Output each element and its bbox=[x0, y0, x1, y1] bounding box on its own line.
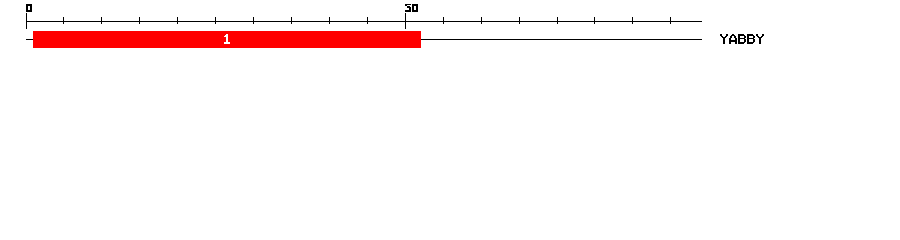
ruler minor tick 25 bbox=[215, 17, 216, 24]
sequence line (left of domain bar) bbox=[26, 39, 33, 40]
ruler minor tick 35 bbox=[291, 17, 292, 24]
sequence line (right of domain bar) bbox=[421, 39, 702, 40]
letter B bbox=[747, 34, 755, 44]
domain bar label "1" (white digit) bbox=[224, 34, 230, 44]
ruler major tick at 50 bbox=[405, 13, 406, 29]
letter B bbox=[738, 34, 746, 44]
ruler minor tick 80 bbox=[632, 17, 633, 24]
ruler label "50" digit 0 bbox=[412, 4, 418, 12]
letter A bbox=[729, 34, 737, 44]
ruler label "50" digit 5 bbox=[405, 4, 411, 12]
ruler minor tick 60 bbox=[481, 17, 482, 24]
ruler minor tick 85 bbox=[670, 17, 671, 24]
letter Y bbox=[756, 34, 764, 44]
ruler minor tick 15 bbox=[139, 17, 140, 24]
ruler minor tick 10 bbox=[101, 17, 102, 24]
ruler minor tick 30 bbox=[253, 17, 254, 24]
domain bar 1 (red rectangle) bbox=[33, 31, 421, 48]
ruler minor tick 5 bbox=[63, 17, 64, 24]
ruler major tick at 0 bbox=[26, 13, 27, 29]
ruler minor tick 45 bbox=[367, 17, 368, 24]
ruler minor tick 65 bbox=[519, 17, 520, 24]
sequence name YABBY: letter Y bbox=[720, 34, 728, 44]
ruler minor tick 55 bbox=[443, 17, 444, 24]
ruler minor tick 70 bbox=[557, 17, 558, 24]
ruler minor tick 75 bbox=[594, 17, 595, 24]
ruler minor tick 40 bbox=[329, 17, 330, 24]
ruler axis line bbox=[26, 21, 702, 22]
ruler label "0" bbox=[26, 4, 32, 12]
ruler minor tick 20 bbox=[177, 17, 178, 24]
